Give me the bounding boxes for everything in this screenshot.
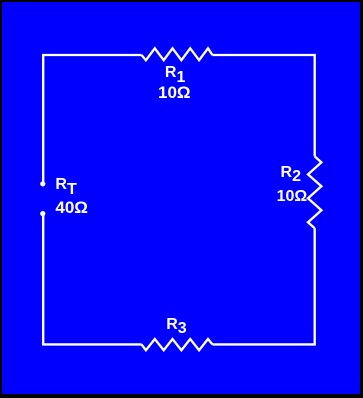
wire node D: R3 left end, left along bottom, up left side to bottom terminal: [43, 214, 141, 345]
wire node C: R2 bottom, down right side, left along bottom to R3 right end: [212, 228, 314, 344]
terminal dot (bottom, node D): [40, 211, 45, 216]
label R1 value 10 ohms: [158, 84, 191, 101]
label R2 value 10 ohms: [277, 189, 308, 205]
resistor R2 (zigzag, right side): [308, 156, 321, 228]
wire node A: R1 left end, left along top, down left side to top terminal: [43, 55, 141, 184]
resistor R1 (zigzag, top): [142, 48, 213, 60]
resistor R3 (zigzag, bottom): [142, 339, 213, 350]
wire node B: R1 right end, right along top, down right side to R2 top: [212, 55, 314, 156]
label R3 designator: [166, 317, 186, 333]
label R2 designator: [281, 165, 301, 181]
label RT designator (total resistance across terminals): [55, 177, 76, 193]
terminal dot (top, node A): [40, 181, 45, 186]
label R1 designator: [165, 65, 185, 81]
label RT value 40 ohms: [55, 199, 88, 216]
